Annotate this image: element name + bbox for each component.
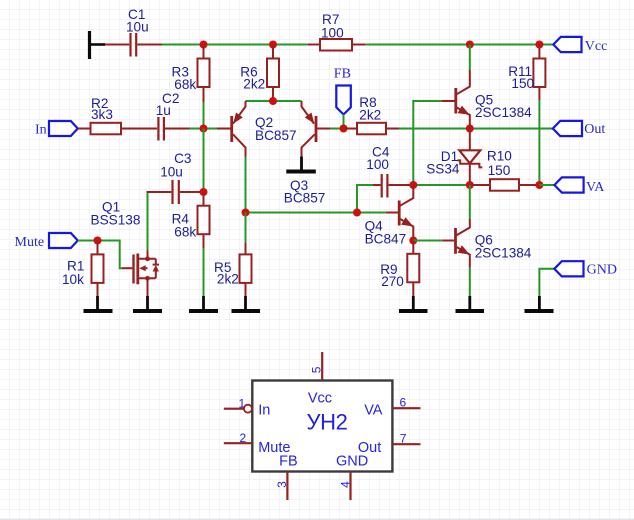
svg-text:BC857: BC857: [284, 190, 326, 205]
svg-text:Mute: Mute: [15, 235, 45, 250]
junction Q4 emitter R9 Q6 base: [409, 237, 417, 245]
ground under R9: [399, 296, 428, 311]
pin 1 In left with inversion bubble: [224, 408, 244, 410]
transistor Q4 BC847 NPN: [386, 185, 414, 241]
svg-text:10k: 10k: [62, 272, 84, 287]
wire FB port to junction: [343, 115, 345, 129]
svg-text:In: In: [35, 123, 47, 138]
wire bottom rail C4 elbow to Q4 base: [357, 212, 386, 214]
svg-text:FB: FB: [279, 453, 298, 469]
wire R4 to ground: [203, 248, 205, 296]
resistor R3: [198, 45, 210, 103]
port FB: [336, 86, 351, 115]
svg-text:6: 6: [400, 396, 407, 410]
svg-text:2k2: 2k2: [359, 108, 381, 123]
port Out: [553, 121, 582, 136]
resistor R7: [308, 39, 365, 51]
wire Mute junction to Q1 gate elbow: [98, 241, 123, 269]
svg-text:BC847: BC847: [365, 232, 407, 247]
wire Q6 collector to VA junction: [469, 185, 471, 219]
ground under Q1: [133, 296, 162, 311]
pin 3 FB bottom: [286, 472, 288, 501]
resistor R5: [240, 243, 252, 296]
svg-text:BSS138: BSS138: [91, 213, 141, 228]
svg-text:Vcc: Vcc: [308, 391, 332, 407]
port Mute: [49, 233, 78, 248]
wire bottom rail Q2 to C4 elbow: [246, 212, 358, 214]
pin 7 Out right: [392, 443, 420, 445]
svg-text:5: 5: [310, 366, 324, 373]
junction emitter rail at R6: [269, 97, 277, 105]
ground under R5: [232, 296, 261, 311]
svg-text:1u: 1u: [156, 103, 171, 118]
wire junction to Q2 base: [204, 128, 218, 130]
svg-text:BC857: BC857: [255, 128, 297, 143]
svg-text:150: 150: [488, 163, 511, 178]
wire VA line D1 junction to Q4 junction: [413, 184, 470, 186]
junction In line at R3 column: [200, 125, 208, 133]
svg-text:2SC1384: 2SC1384: [475, 105, 532, 120]
pin 6 VA right: [392, 407, 420, 409]
wire Q2 Q3 emitter rail: [246, 100, 302, 102]
transistor Q5 2SC1384 NPN: [442, 70, 470, 129]
svg-text:10u: 10u: [160, 165, 183, 180]
ground under R1: [84, 296, 113, 311]
resistor R6: [267, 45, 279, 101]
junction bottom rail at Q2 collector: [242, 209, 250, 217]
junction VA line at D1: [466, 181, 474, 189]
svg-text:Vcc: Vcc: [585, 39, 608, 54]
svg-text:УН2: УН2: [307, 410, 348, 435]
ground under R4: [189, 296, 218, 311]
svg-text:2k2: 2k2: [243, 76, 265, 91]
resistor R8: [344, 123, 400, 135]
wire R5 top from bottom rail: [245, 213, 247, 244]
port VA: [554, 177, 583, 192]
wire GND port elbow: [539, 269, 554, 296]
wire R11 junction to VA port: [539, 184, 554, 186]
svg-text:100: 100: [366, 157, 389, 172]
resistor R4: [198, 192, 210, 248]
wire Q3 base to FB junction: [330, 128, 344, 130]
svg-text:2: 2: [240, 431, 247, 445]
svg-text:7: 7: [400, 432, 407, 446]
transistor Q1 BSS138 MOSFET: [122, 251, 159, 297]
svg-text:VA: VA: [586, 180, 605, 195]
wire Out line D1 junction to Out port: [470, 128, 553, 130]
wire R3 column In line to C3 junction: [203, 129, 205, 193]
svg-text:GND: GND: [587, 263, 617, 278]
svg-text:150: 150: [511, 76, 534, 91]
wire Q5 collector to top rail: [469, 45, 471, 71]
svg-text:Out: Out: [584, 122, 605, 137]
transistor Q6 2SC1384 NPN: [442, 219, 470, 268]
ground under GND port: [525, 296, 554, 311]
wire Out line R8 to D1 junction: [399, 128, 470, 130]
svg-text:68k: 68k: [174, 225, 196, 240]
wire top rail R7 to Q5 collector: [365, 44, 470, 46]
svg-text:2k2: 2k2: [217, 272, 239, 287]
junction Mute R1: [94, 237, 102, 245]
power tap symbol top-left: [90, 31, 106, 59]
svg-text:10u: 10u: [126, 20, 149, 35]
wire C2 to junction: [190, 128, 204, 130]
svg-text:2SC1384: 2SC1384: [475, 246, 532, 261]
svg-text:VA: VA: [364, 403, 383, 419]
junction top rail at Q5 collector: [466, 41, 474, 49]
transistor Q2 BC857 PNP: [217, 101, 246, 157]
svg-text:R10: R10: [487, 148, 512, 163]
junction FB on In line: [340, 125, 348, 133]
resistor R9: [407, 241, 419, 297]
svg-text:SS34: SS34: [426, 161, 460, 176]
wire Mute port to R1 junction: [78, 240, 98, 242]
wire Q1 drain to C3: [147, 191, 149, 251]
svg-text:100: 100: [321, 25, 344, 40]
resistor R2: [78, 123, 157, 135]
port GND: [554, 261, 583, 276]
resistor R1: [92, 241, 104, 297]
svg-text:3k3: 3k3: [91, 107, 113, 122]
svg-text:270: 270: [381, 274, 404, 289]
junction top rail at R3: [200, 41, 208, 49]
svg-text:3: 3: [275, 481, 289, 488]
wire top rail C1 to R3: [162, 44, 204, 46]
pin 4 GND bottom: [349, 472, 351, 501]
svg-text:In: In: [258, 403, 270, 419]
svg-text:FB: FB: [334, 66, 351, 81]
wire top rail R11 to Vcc port: [539, 44, 553, 46]
svg-text:GND: GND: [336, 454, 368, 470]
port Vcc: [553, 37, 581, 52]
junction top rail at R6: [269, 41, 277, 49]
wire Q6 emitter to ground: [469, 268, 471, 296]
svg-text:4: 4: [338, 481, 352, 488]
IC block UH2 body: [252, 381, 392, 472]
svg-text:1: 1: [239, 397, 246, 411]
wire C4 left elbow to bottom rail: [357, 185, 373, 213]
wire top rail Q5 to R11: [470, 44, 540, 46]
wire R11 to VA line: [538, 100, 540, 185]
wire top rail R6 to R7: [273, 44, 308, 46]
resistor R11: [533, 45, 545, 101]
pin 2 Mute left: [224, 442, 253, 444]
junction VA line at R11: [535, 181, 543, 189]
junction top rail at R11: [535, 41, 543, 49]
capacitor C3: [147, 180, 204, 204]
port In: [49, 121, 78, 136]
junction C3 R4: [200, 188, 208, 196]
bubble pin 1: [244, 405, 252, 413]
ground under Q6: [456, 296, 485, 311]
junction VA line at Q4 collector: [409, 181, 417, 189]
wire R3 to In line: [203, 102, 205, 129]
capacitor C2: [158, 117, 189, 141]
wire Q2 collector down: [245, 157, 247, 213]
wire top rail R3 to R6: [204, 44, 274, 46]
diode D1 SS34: [457, 129, 482, 186]
capacitor C4: [373, 174, 413, 198]
resistor R10: [470, 179, 540, 191]
junction bottom rail at C4 elbow: [353, 209, 361, 217]
ground under Q3: [286, 157, 316, 172]
capacitor C1: [105, 33, 162, 57]
wire Q4 emitter junction to Q6 base: [413, 240, 442, 242]
wire Q5 base elbow from VA junction: [413, 101, 441, 185]
transistor Q3 BC857 PNP: [302, 101, 331, 157]
svg-text:68k: 68k: [174, 77, 196, 92]
junction Out line at D1: [466, 125, 474, 133]
pin 5 Vcc top: [321, 352, 323, 381]
